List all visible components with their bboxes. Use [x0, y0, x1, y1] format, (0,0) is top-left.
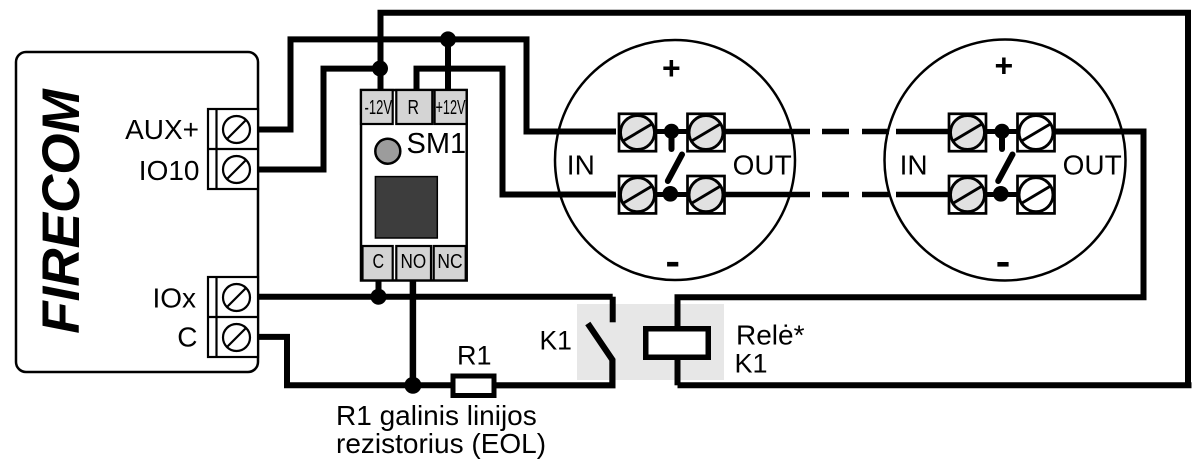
- svg-text:C: C: [177, 322, 197, 353]
- svg-text:-12V: -12V: [365, 97, 393, 119]
- svg-text:IOx: IOx: [152, 282, 196, 313]
- svg-text:OUT: OUT: [1063, 149, 1122, 180]
- svg-text:R1: R1: [457, 341, 492, 371]
- svg-text:K1: K1: [735, 349, 768, 379]
- svg-text:IO10: IO10: [139, 155, 200, 186]
- svg-text:OUT: OUT: [733, 149, 792, 180]
- svg-text:C: C: [373, 251, 385, 273]
- svg-text:AUX+: AUX+: [125, 114, 199, 145]
- svg-text:R: R: [408, 97, 420, 119]
- svg-text:FIRECOM: FIRECOM: [32, 87, 91, 333]
- svg-text:NO: NO: [401, 251, 427, 273]
- svg-text:+: +: [995, 48, 1014, 84]
- svg-text:rezistorius (EOL): rezistorius (EOL): [336, 428, 546, 459]
- svg-text:+: +: [662, 50, 681, 86]
- svg-text:R1 galinis linijos: R1 galinis linijos: [336, 400, 537, 431]
- svg-text:IN: IN: [567, 149, 595, 180]
- svg-text:SM1: SM1: [407, 128, 467, 160]
- svg-text:IN: IN: [900, 149, 928, 180]
- svg-text:K1: K1: [540, 326, 572, 356]
- svg-text:+12V: +12V: [436, 97, 466, 119]
- svg-text:NC: NC: [437, 251, 462, 273]
- svg-text:Relė*: Relė*: [736, 319, 805, 350]
